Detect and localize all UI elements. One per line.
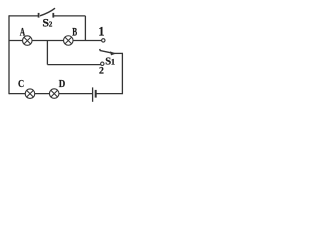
svg-text:1: 1 <box>111 58 115 67</box>
lamp B <box>64 36 74 46</box>
svg-text:C: C <box>18 79 24 90</box>
wire top-left segment <box>9 15 39 17</box>
switch S2 blade <box>40 8 55 16</box>
svg-text:1: 1 <box>98 25 104 39</box>
wire branch horizontal to terminal 2 <box>47 64 100 66</box>
lamp A <box>23 36 33 46</box>
terminal 2 node circle <box>101 62 104 65</box>
terminal 1 node circle <box>102 39 105 42</box>
switch S2 right contact tick <box>52 13 54 18</box>
wire branch vertical at junction <box>46 41 48 65</box>
wire bottom right of battery <box>96 93 123 95</box>
lamp D <box>49 89 59 99</box>
wire right edge <box>121 53 123 94</box>
wire vertical from top wire down to middle wire <box>84 16 86 41</box>
svg-text:2: 2 <box>49 21 53 29</box>
battery long plate <box>92 87 94 101</box>
battery short plate <box>95 90 97 98</box>
svg-text:B: B <box>72 25 77 39</box>
svg-text:2: 2 <box>99 66 104 77</box>
wire from switch S1 arrow to right edge <box>112 52 123 54</box>
switch S1 arrowhead <box>110 51 116 55</box>
switch S2 left contact tick <box>38 13 40 18</box>
wire left edge <box>8 15 10 94</box>
switch S1 blade <box>100 49 112 53</box>
svg-text:A: A <box>20 25 26 39</box>
lamp C <box>25 89 35 99</box>
wire bottom left (through lamps C and D) <box>9 93 92 95</box>
wire top-right segment <box>53 15 86 17</box>
svg-text:D: D <box>59 79 66 90</box>
wire middle (through lamps A and B) <box>9 40 102 42</box>
